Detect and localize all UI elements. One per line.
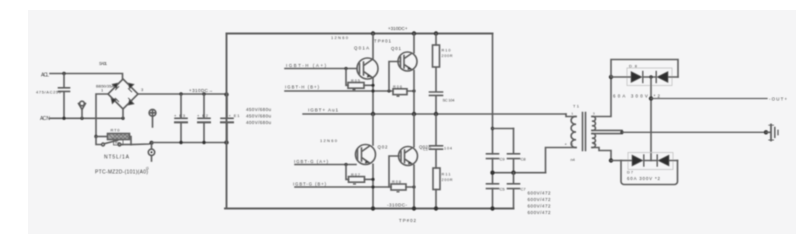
svg-text:Q01: Q01 xyxy=(391,46,402,51)
svg-text:TP#01: TP#01 xyxy=(374,39,392,44)
junction DC- rail / ground xyxy=(150,141,154,145)
capacitor snubber bottom xyxy=(430,114,443,168)
junction rail E3 xyxy=(179,141,182,144)
junction B Q01A emitter xyxy=(371,89,374,92)
relay contact Re xyxy=(96,137,102,145)
diode module D8 outline xyxy=(627,68,672,86)
svg-text:600V/472: 600V/472 xyxy=(528,204,551,209)
svg-text:+ E3: + E3 xyxy=(174,113,186,118)
capacitor C9 xyxy=(487,154,499,159)
text TP#02 xyxy=(399,218,417,223)
svg-text:Re: Re xyxy=(115,141,120,145)
svg-text:+ E2: + E2 xyxy=(197,113,209,118)
diode module D7 outline xyxy=(628,153,673,170)
resistor R06 xyxy=(393,89,407,95)
junction top bus Q01A xyxy=(371,31,375,35)
junction gate A xyxy=(344,67,347,70)
svg-text:G: G xyxy=(146,167,149,171)
junction gate A2 xyxy=(344,163,347,166)
svg-text:C7: C7 xyxy=(521,187,527,192)
capacitor C5 xyxy=(487,184,499,189)
text electrolytic values xyxy=(246,107,271,125)
text 600V/472 values xyxy=(528,191,551,216)
wire cathodes vertical xyxy=(650,77,652,161)
text PTC-MZ2D-(101)(A0) xyxy=(95,170,148,176)
svg-text:C9: C9 xyxy=(500,157,506,162)
svg-text:+310DC→: +310DC→ xyxy=(189,88,213,93)
wire line B (IGBT-H B+) xyxy=(285,90,414,92)
wire ACL to bridge top xyxy=(50,74,123,80)
junction top bus R10 xyxy=(434,31,438,35)
thermistor RT0 xyxy=(96,136,108,138)
capacitor C7 xyxy=(508,173,520,209)
wire col1 to col2 stub xyxy=(493,128,514,130)
svg-text:R06: R06 xyxy=(393,85,402,89)
junction R07 emitter xyxy=(371,178,374,181)
wire mid node to primary bottom xyxy=(546,148,577,173)
IGBT Q02 xyxy=(399,147,418,166)
svg-text:BB50/35A: BB50/35A xyxy=(96,84,114,89)
svg-text:600V/472: 600V/472 xyxy=(528,191,551,196)
svg-text:12N60: 12N60 xyxy=(320,138,338,143)
module box left edge xyxy=(226,34,228,209)
diode pair D8 xyxy=(611,60,678,78)
svg-text:SA01: SA01 xyxy=(99,61,108,66)
svg-text:IGBT-H (A+): IGBT-H (A+) xyxy=(286,63,327,68)
resistor R11 xyxy=(433,168,440,190)
svg-text:60A 300V *2: 60A 300V *2 xyxy=(627,176,661,181)
node ACL xyxy=(41,73,49,79)
svg-text:600V/472: 600V/472 xyxy=(528,197,551,202)
IGBT Q01A xyxy=(357,58,378,79)
wire mid rail IGBT output xyxy=(303,113,566,115)
wire OUT+ xyxy=(651,98,767,100)
wire +310DC bus left xyxy=(138,93,227,95)
wire secondary center tap xyxy=(592,130,622,133)
transformer T1 xyxy=(571,116,576,147)
svg-text:450V/680u: 450V/680u xyxy=(246,107,271,112)
wire rail jog to primary top xyxy=(566,114,576,117)
svg-text:IGBT-H (B+): IGBT-H (B+) xyxy=(285,84,320,89)
junction col1 stub xyxy=(491,127,494,130)
junction D8 anode xyxy=(609,75,613,79)
wire line B2 (IGBT-G B+) xyxy=(295,186,414,188)
junction ACN end xyxy=(121,117,124,120)
node ACN xyxy=(40,116,50,122)
capacitor E3 xyxy=(175,94,187,143)
svg-text:200R: 200R xyxy=(442,54,453,58)
junction D8 cathode xyxy=(649,75,652,78)
wire gate line A (IGBT-H A+) xyxy=(285,68,357,70)
wire OUT- center tap line xyxy=(622,131,766,133)
capacitor E1 xyxy=(221,94,233,143)
svg-text:D7: D7 xyxy=(627,171,633,175)
svg-text:R11: R11 xyxy=(442,173,451,177)
junction OUT- end xyxy=(764,130,768,134)
svg-text:104: 104 xyxy=(444,147,452,151)
svg-text:C1: C1 xyxy=(423,148,428,152)
text TP#01 xyxy=(374,39,392,44)
earth ground xyxy=(766,131,770,133)
junction bottom bus R11 xyxy=(434,206,438,210)
wire gate line A2 (IGBT-G A+) xyxy=(295,164,356,166)
junction E3 xyxy=(179,92,182,95)
wire ACN to bridge bottom xyxy=(50,117,123,119)
junction D7 anode xyxy=(609,158,613,162)
svg-text:R05: R05 xyxy=(351,79,360,83)
svg-text:C8: C8 xyxy=(521,157,527,162)
svg-text:600V/472: 600V/472 xyxy=(528,210,551,215)
capacitor E2 xyxy=(198,94,210,143)
junction ACN/arrester xyxy=(80,117,83,120)
svg-text:60A 300V *2: 60A 300V *2 xyxy=(613,94,661,99)
resistor R07 xyxy=(365,178,374,180)
bridge rectifier SA01 BB50/35A xyxy=(108,79,138,109)
junction OUT+ xyxy=(649,96,653,100)
svg-text:Q02: Q02 xyxy=(378,145,389,150)
diode pair D7 xyxy=(611,160,678,162)
junction E2 xyxy=(202,92,205,95)
svg-text:475/AC250: 475/AC250 xyxy=(36,90,62,95)
junction PTC left xyxy=(94,135,97,138)
chassis terminal xyxy=(151,143,153,149)
resistor R05 xyxy=(348,83,364,89)
wire gate A down xyxy=(346,69,348,86)
svg-text:-OUT+: -OUT+ xyxy=(769,97,787,102)
svg-text:IGBT-G (B+): IGBT-G (B+) xyxy=(293,181,327,186)
junction rail snubber xyxy=(434,112,438,116)
junction bus / box edge xyxy=(224,92,228,96)
wire DC- rail xyxy=(152,142,227,144)
junction ACN/cap xyxy=(62,117,65,120)
junction rail / box edge xyxy=(224,140,228,144)
svg-text:TP#02: TP#02 xyxy=(399,218,417,223)
junction rail E2 xyxy=(202,141,205,144)
svg-text:NT5L/1A: NT5L/1A xyxy=(104,155,130,161)
wire cap mid node xyxy=(493,172,546,174)
module box right edge (with C9/C5 gaps) xyxy=(492,34,494,209)
svg-text:n4: n4 xyxy=(571,158,575,162)
svg-text:C5: C5 xyxy=(500,187,506,192)
wire PTC to DC- rail xyxy=(131,143,152,145)
svg-text:IGBT+ Au1: IGBT+ Au1 xyxy=(308,108,338,113)
text NT5L/1A xyxy=(104,155,130,161)
resistor R10 xyxy=(435,34,437,46)
glyph above rail xyxy=(149,109,156,116)
resistor R08 xyxy=(391,184,406,190)
capacitor snubber top xyxy=(430,68,443,114)
capacitor CX 475/AC250V xyxy=(59,74,70,119)
svg-text:450V/680u: 450V/680u xyxy=(246,114,271,119)
svg-text:IGBT-G (A+): IGBT-G (A+) xyxy=(294,159,329,164)
svg-text:+310DC+: +310DC+ xyxy=(388,26,408,31)
svg-text:Q01A: Q01A xyxy=(354,46,369,51)
junction top bus Q01 xyxy=(412,31,416,35)
junction mid col2 xyxy=(511,171,515,175)
junction bottom bus Q02A xyxy=(371,206,375,210)
svg-text:R07: R07 xyxy=(351,173,360,177)
wire secondary bottom to D7 xyxy=(592,148,611,161)
svg-text:12N60: 12N60 xyxy=(331,35,349,40)
surge arrester glyph xyxy=(79,104,86,119)
svg-text:-310DC-: -310DC- xyxy=(387,203,407,208)
text 12N60 bottom xyxy=(320,138,338,143)
capacitor C8 xyxy=(508,129,520,173)
svg-text:ACL: ACL xyxy=(41,73,49,79)
wire bridge minus down to PTC xyxy=(96,94,108,137)
junction B2 Q02A emitter xyxy=(371,185,374,188)
svg-text:400V/680u: 400V/680u xyxy=(246,120,271,125)
junction B Q01 emitter xyxy=(412,89,415,92)
text +310DC+ xyxy=(388,26,408,31)
wire gate A2 down xyxy=(346,165,349,180)
svg-text:RT0: RT0 xyxy=(111,128,121,133)
module box bottom edge (-310DC bus) xyxy=(225,208,514,210)
junction center tap xyxy=(620,131,623,134)
svg-text:T1: T1 xyxy=(573,104,580,109)
junction ACL/cap xyxy=(62,72,65,75)
junction B Q01 gate xyxy=(387,89,390,92)
svg-text:PTC-MZ2D-(101)(A0): PTC-MZ2D-(101)(A0) xyxy=(95,170,148,176)
junction rail Q01A/Q02A xyxy=(371,112,375,116)
text 12N60 top xyxy=(331,35,349,40)
text -310DC- xyxy=(387,203,407,208)
junction bottom bus Q02 xyxy=(412,206,416,210)
svg-text:+ E1: + E1 xyxy=(229,113,241,118)
module box top edge (+310DC bus) xyxy=(227,33,493,35)
wire bridge bottom stub xyxy=(122,109,124,118)
svg-text:SC 104: SC 104 xyxy=(443,99,455,103)
IGBT Q02A xyxy=(356,145,376,165)
junction B2 Q02 emitter xyxy=(412,185,415,188)
svg-text:R10: R10 xyxy=(442,49,451,53)
wire secondary top to D8 xyxy=(592,77,611,117)
svg-text:200R: 200R xyxy=(442,178,453,182)
svg-text:AC N: AC N xyxy=(40,116,50,122)
svg-text:R08: R08 xyxy=(392,180,401,184)
junction mid col1 xyxy=(490,171,494,175)
junction bottom bus col1 xyxy=(490,206,494,210)
IGBT Q01 xyxy=(398,52,417,71)
junction rail Q01/Q02 xyxy=(412,112,416,116)
